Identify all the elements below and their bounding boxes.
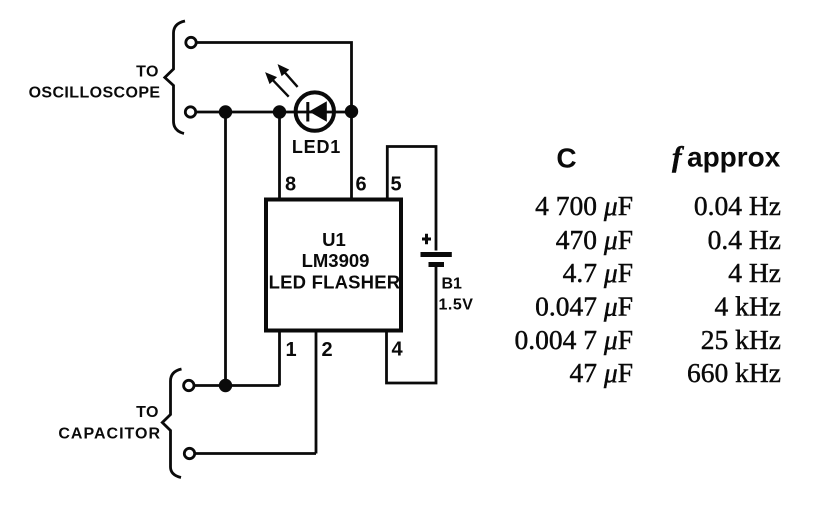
wire: bottom oscilloscope terminal to LED (197, 111, 352, 114)
svg-text:2: 2 (322, 339, 333, 361)
IC U1 box (266, 200, 401, 331)
terminal: oscilloscope bottom (185, 107, 195, 117)
wire: capacitor bottom terminal to pin 2 (196, 452, 317, 455)
table header f approx (672, 142, 781, 174)
svg-text:approx: approx (687, 142, 781, 173)
svg-text:4.7 μF: 4.7 μF (563, 257, 633, 288)
label B1 1.5V (439, 276, 474, 314)
svg-text:U1: U1 (322, 229, 346, 250)
table row 2: 470 uF (556, 224, 633, 255)
svg-text:8: 8 (285, 174, 296, 196)
table row 4: 0.047 uF (535, 291, 633, 322)
brace (to oscilloscope) (165, 21, 185, 134)
wire: top terminal to LED cathode column (197, 43, 352, 112)
battery B1 (421, 234, 452, 265)
table row 5: 25 kHz (701, 324, 781, 355)
svg-text:LM3909: LM3909 (302, 250, 370, 271)
table row 1: 0.04 Hz (694, 190, 781, 221)
pin 5 (391, 174, 402, 196)
svg-text:1: 1 (286, 339, 297, 361)
LED LED1 (296, 92, 334, 130)
wire: pin 2 lead (315, 333, 318, 454)
node: junction LED cathode / pin 6 (345, 105, 358, 118)
label TO OSCILLOSCOPE (29, 64, 161, 102)
wire: pin 6 lead (350, 112, 353, 199)
pin 1 (286, 339, 297, 361)
pin 6 (356, 174, 367, 196)
svg-text:0.004 7 μF: 0.004 7 μF (515, 324, 633, 355)
svg-text:OSCILLOSCOPE: OSCILLOSCOPE (29, 85, 161, 102)
svg-text:4 kHz: 4 kHz (715, 291, 781, 322)
svg-text:470 μF: 470 μF (556, 224, 633, 255)
table row 3: 4 Hz (728, 257, 781, 288)
table row 1: 4700 uF (535, 190, 633, 221)
LED1 emitted light arrows (267, 66, 298, 97)
table row 6: 47 uF (570, 357, 633, 388)
svg-text:0.04 Hz: 0.04 Hz (694, 190, 781, 221)
svg-text:0.047 μF: 0.047 μF (535, 291, 633, 322)
table row 3: 4.7 uF (563, 257, 633, 288)
table row 6: 660 kHz (687, 357, 781, 388)
svg-text:4 700 μF: 4 700 μF (535, 190, 633, 221)
svg-text:47 μF: 47 μF (570, 357, 633, 388)
svg-text:4: 4 (392, 339, 404, 361)
svg-text:660 kHz: 660 kHz (687, 357, 781, 388)
table row 2: 0.4 Hz (708, 224, 781, 255)
svg-text:4 Hz: 4 Hz (728, 257, 781, 288)
svg-text:6: 6 (356, 174, 367, 196)
pin 4 (392, 339, 404, 361)
svg-text:CAPACITOR: CAPACITOR (58, 426, 161, 443)
node: junction LED anode / pin 8 (273, 105, 286, 118)
pin 8 (285, 174, 296, 196)
svg-text:5: 5 (391, 174, 402, 196)
wire: pin 1 lead (278, 333, 281, 386)
table row 4: 4 kHz (715, 291, 781, 322)
wire: to capacitor top terminal (long vertical) (224, 112, 227, 386)
label LED1 (292, 137, 341, 157)
svg-text:0.4 Hz: 0.4 Hz (708, 224, 781, 255)
label TO CAPACITOR (58, 404, 161, 443)
table header C (556, 143, 576, 174)
wire: battery negative to pin 4 (387, 267, 437, 383)
svg-text:25 kHz: 25 kHz (701, 324, 781, 355)
node: junction osc/capacitor (219, 105, 232, 118)
wire: pin 8 lead (278, 112, 281, 198)
svg-text:1.5V: 1.5V (439, 297, 474, 314)
svg-text:B1: B1 (442, 276, 463, 293)
label U1 LM3909 LED FLASHER (269, 229, 401, 293)
svg-text:C: C (556, 143, 576, 174)
brace (to capacitor) (162, 369, 181, 478)
wire: pin 5 to battery positive (387, 147, 436, 251)
svg-text:TO: TO (136, 64, 159, 81)
pin 2 (322, 339, 333, 361)
table row 5: 0.0047 uF (515, 324, 633, 355)
svg-text:f: f (672, 142, 685, 174)
svg-text:LED FLASHER: LED FLASHER (269, 272, 401, 293)
svg-text:TO: TO (136, 404, 159, 421)
terminal: capacitor bottom (184, 448, 194, 458)
node: junction capacitor top (219, 379, 232, 392)
terminal: capacitor top (184, 380, 194, 390)
terminal: oscilloscope top (186, 37, 196, 47)
svg-text:LED1: LED1 (292, 137, 341, 157)
wire: capacitor top terminal to pin 1 (195, 384, 280, 387)
